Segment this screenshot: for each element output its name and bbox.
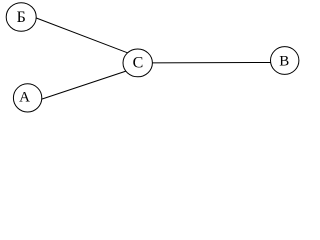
node А (bottom-left vertex circle with label)	[13, 84, 41, 112]
wire Б–С	[33, 17, 130, 54]
svg-text:А: А	[19, 89, 30, 105]
svg-text:В: В	[279, 53, 289, 69]
wire А–С	[38, 70, 129, 100]
node С (center vertex circle with label)	[123, 49, 152, 77]
svg-text:Б: Б	[17, 9, 26, 26]
node Б (top-left vertex circle with label)	[6, 3, 36, 32]
svg-text:С: С	[133, 55, 144, 72]
node В (right vertex circle with label)	[271, 47, 299, 75]
wire С–В	[150, 61, 273, 63]
